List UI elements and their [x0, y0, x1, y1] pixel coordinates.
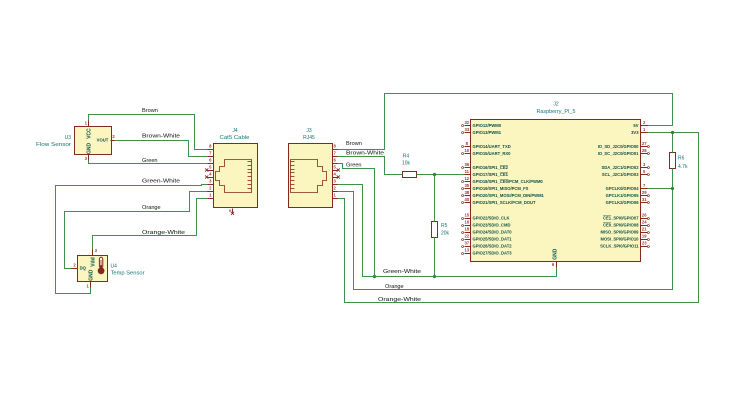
svg-text:21: 21	[642, 227, 647, 232]
svg-text:R6: R6	[678, 156, 685, 162]
svg-text:Orange: Orange	[142, 205, 161, 211]
J4 pins 8..1 stubs and numbers	[208, 144, 214, 199]
junction at R4/R5 node	[433, 173, 436, 176]
svg-text:33: 33	[464, 127, 469, 132]
svg-text:1: 1	[85, 120, 88, 125]
wire Green-White: U4 GND to J4 pin 3	[56, 185, 208, 294]
U3 pin 3 GND stub	[88, 155, 90, 161]
svg-text:Flow Sensor: Flow Sensor	[36, 142, 71, 148]
U4 pin 2 DQ stub (left)	[72, 268, 78, 270]
U3 pin 1 VCC stub	[88, 121, 90, 127]
J4 no-connect x on pin 5	[205, 168, 208, 171]
svg-text:R5: R5	[441, 223, 448, 229]
svg-text:MISO_SPI0/GPIO09: MISO_SPI0/GPIO09	[601, 230, 640, 235]
svg-text:2: 2	[334, 186, 337, 191]
J4 no-connect x on pin 4	[205, 175, 208, 178]
junction Green joins Green-White (GND net)	[373, 275, 376, 278]
wire Brown: U3 VCC to J4 pin 8	[89, 115, 208, 150]
svg-text:3: 3	[85, 156, 88, 161]
svg-text:2: 2	[112, 134, 115, 139]
svg-text:GND: GND	[87, 143, 93, 155]
svg-text:6: 6	[552, 262, 555, 267]
svg-text:31: 31	[642, 197, 647, 202]
wire R6 pull-up leads	[672, 133, 674, 153]
resistor R6 body	[670, 153, 676, 169]
svg-text:13: 13	[464, 248, 469, 253]
svg-text:Brown: Brown	[142, 108, 158, 114]
U4 thermometer icon	[98, 257, 105, 274]
U4 pin 3 Vdd stub (top)	[92, 250, 94, 256]
svg-text:GPCLK1/GPIO05: GPCLK1/GPIO05	[606, 193, 640, 198]
svg-text:10k: 10k	[402, 160, 411, 166]
svg-text:29: 29	[642, 190, 647, 195]
temp sensor U4 body	[78, 256, 108, 282]
svg-text:Brown-White: Brown-White	[142, 133, 180, 139]
svg-text:CE0_SPI0/GPIO08: CE0_SPI0/GPIO08	[603, 223, 639, 228]
junction R6 top on 3V3 wire	[671, 131, 674, 134]
svg-text:DQ: DQ	[80, 266, 87, 271]
svg-text:Vdd: Vdd	[90, 257, 96, 266]
junction R5 bottom on Green-White wire	[433, 275, 436, 278]
svg-text:GPIO15/UART_RX0: GPIO15/UART_RX0	[473, 151, 512, 156]
svg-text:GPIO13/PWM1: GPIO13/PWM1	[473, 130, 502, 135]
svg-text:5: 5	[643, 169, 646, 174]
wire Green: J3 pin 6 down to Green-White junction	[338, 164, 375, 277]
svg-text:3: 3	[209, 179, 212, 184]
svg-text:4.7k: 4.7k	[678, 164, 688, 170]
svg-text:3: 3	[334, 179, 337, 184]
Raspberry Pi header J2 body	[471, 120, 641, 262]
svg-text:3: 3	[95, 248, 98, 253]
svg-text:18: 18	[464, 227, 469, 232]
svg-text:SCLK_SPI0/GPIO11: SCLK_SPI0/GPIO11	[600, 244, 639, 249]
wire Orange: J3 pin 2 to J2 GPCLK0/GPIO04 pin 7	[338, 189, 673, 290]
svg-text:GPIO25/SDIO_DAT1: GPIO25/SDIO_DAT1	[473, 237, 513, 242]
wire Brown-White: J3 pin 7 through R4 to J2 GPIO17	[338, 157, 403, 175]
J3 no-connect x on pin 5	[337, 168, 340, 171]
resistor R5 body	[432, 222, 438, 238]
svg-text:4: 4	[209, 172, 212, 177]
svg-text:2: 2	[73, 262, 76, 267]
wire Green-White: J3 pin 3 to J2 GND pin 6	[338, 185, 557, 277]
svg-text:16: 16	[464, 220, 469, 225]
svg-text:J2: J2	[553, 102, 559, 108]
svg-text:GPIO12/PWM0: GPIO12/PWM0	[473, 123, 502, 128]
svg-text:7: 7	[209, 151, 212, 156]
svg-text:U4: U4	[111, 264, 118, 270]
svg-text:Green-White: Green-White	[383, 269, 421, 275]
svg-text:Brown-White: Brown-White	[346, 151, 384, 157]
svg-text:Brown: Brown	[346, 141, 362, 147]
wire Orange-White: U4 Vdd to J4 pin 1	[93, 199, 208, 250]
svg-text:7: 7	[643, 183, 646, 188]
svg-text:2: 2	[643, 120, 646, 125]
svg-text:GPIO18/SPI1_CE0/PCM_CLK/PWM0: GPIO18/SPI1_CE0/PCM_CLK/PWM0	[473, 179, 544, 184]
flow sensor U3 body	[75, 127, 112, 155]
svg-text:GPIO24/SDIO_DAT0: GPIO24/SDIO_DAT0	[473, 230, 513, 235]
J2 GND pin stub (bottom)	[556, 262, 558, 268]
svg-text:GPCLK2/GPIO06: GPCLK2/GPIO06	[606, 200, 640, 205]
svg-text:J4: J4	[232, 128, 238, 134]
U3 pin 2 VOUT stub	[111, 140, 115, 142]
svg-text:1: 1	[86, 283, 89, 288]
svg-text:MOSI_SPI0/GPIO10: MOSI_SPI0/GPIO10	[601, 237, 640, 242]
wire Brown-White: U3 VOUT to J4 pin 7	[115, 141, 208, 157]
svg-text:3V3: 3V3	[631, 130, 639, 135]
svg-text:40: 40	[464, 197, 469, 202]
svg-text:1: 1	[209, 193, 212, 198]
connector J4 body	[214, 144, 258, 208]
svg-text:38: 38	[464, 190, 469, 195]
svg-text:SDA_J2C1/GPIO02: SDA_J2C1/GPIO02	[601, 165, 639, 170]
svg-text:11: 11	[465, 169, 470, 174]
svg-text:8: 8	[334, 144, 337, 149]
svg-text:GND: GND	[88, 269, 94, 281]
svg-text:GPIO21/SPI1_SCLK/PCM_DOUT: GPIO21/SPI1_SCLK/PCM_DOUT	[473, 200, 537, 205]
svg-text:CE1_SPI0/GPIO07: CE1_SPI0/GPIO07	[603, 216, 639, 221]
svg-text:3: 3	[643, 162, 646, 167]
svg-text:GPIO17/SPI1_CE1: GPIO17/SPI1_CE1	[473, 172, 509, 177]
svg-text:36: 36	[464, 162, 469, 167]
svg-text:8: 8	[209, 144, 212, 149]
J4 shield no-connect x	[231, 212, 234, 215]
svg-text:GPCLK0/GPIO04: GPCLK0/GPIO04	[606, 186, 640, 191]
svg-text:28: 28	[642, 148, 647, 153]
svg-text:GPIO14/UART_TXD: GPIO14/UART_TXD	[473, 144, 511, 149]
svg-text:Green: Green	[142, 158, 158, 164]
svg-text:2: 2	[209, 186, 212, 191]
svg-text:27: 27	[642, 141, 647, 146]
U4 pin 1 GND stub (bottom)	[90, 282, 92, 288]
svg-text:IO_SD_J2C0/GPIO00: IO_SD_J2C0/GPIO00	[598, 144, 639, 149]
wire Green: U3 GND to J4 pin 6	[89, 161, 208, 164]
J3 pins 8..1 stubs and numbers	[333, 144, 338, 199]
svg-text:Orange-White: Orange-White	[378, 297, 421, 303]
svg-text:35: 35	[464, 183, 469, 188]
svg-text:SCL_J2C1/GPIO03: SCL_J2C1/GPIO03	[602, 172, 639, 177]
svg-text:GND: GND	[553, 248, 559, 260]
svg-text:9: 9	[229, 209, 231, 213]
svg-text:5: 5	[209, 165, 212, 170]
junction GPIO04 node with R6 bottom	[671, 187, 674, 190]
svg-text:4: 4	[334, 172, 337, 177]
svg-text:12: 12	[464, 176, 469, 181]
svg-text:J3: J3	[306, 128, 312, 134]
svg-text:37: 37	[464, 241, 469, 246]
svg-text:Green-White: Green-White	[142, 179, 180, 185]
svg-text:32: 32	[464, 120, 469, 125]
svg-text:U3: U3	[65, 135, 72, 141]
svg-text:GPIO27/SDIO_DAT3: GPIO27/SDIO_DAT3	[473, 251, 513, 256]
svg-text:23: 23	[642, 241, 647, 246]
svg-text:GPIO26/SDIO_DAT2: GPIO26/SDIO_DAT2	[473, 244, 513, 249]
J3 no-connect x on pin 4	[337, 175, 340, 178]
svg-text:26: 26	[642, 213, 647, 218]
svg-text:GPIO16/SPI1_CE2: GPIO16/SPI1_CE2	[473, 165, 509, 170]
wire Brown: J3 pin 8 to J2 5V pin 2	[338, 94, 673, 150]
svg-text:IO_SC_J2C0/GPIO01: IO_SC_J2C0/GPIO01	[598, 151, 639, 156]
svg-text:RJ45: RJ45	[303, 135, 315, 141]
svg-text:6: 6	[209, 158, 212, 163]
svg-text:6: 6	[334, 158, 337, 163]
svg-text:1: 1	[643, 127, 646, 132]
svg-text:GPIO20/SPI1_MOSI/PCM_DIN/PWM1: GPIO20/SPI1_MOSI/PCM_DIN/PWM1	[473, 193, 545, 198]
svg-text:24: 24	[642, 220, 647, 225]
svg-text:VCC: VCC	[87, 128, 93, 139]
svg-text:Cat5 Cable: Cat5 Cable	[220, 135, 250, 141]
svg-text:Temp Sensor: Temp Sensor	[111, 271, 145, 277]
wire Orange-White: J3 pin 1 to J2 3V3 pin 1	[338, 133, 699, 303]
svg-text:15: 15	[464, 213, 469, 218]
resistor R4 body	[403, 172, 417, 178]
J2 left pins (stubs, numbers, names)	[462, 120, 545, 255]
svg-text:20k: 20k	[441, 231, 450, 237]
svg-text:GPIO23/SDIO_CMD: GPIO23/SDIO_CMD	[473, 223, 511, 228]
wire R5 pull-down from GPIO17 node to GND net	[434, 175, 436, 222]
svg-text:VOUT: VOUT	[97, 138, 109, 143]
svg-text:5V: 5V	[633, 123, 638, 128]
svg-text:5: 5	[334, 165, 337, 170]
connector J3 body	[289, 144, 333, 208]
svg-text:GPIO19/SPI1_MISO/PCM_FS: GPIO19/SPI1_MISO/PCM_FS	[473, 186, 529, 191]
J4 RJ45 jack glyph	[216, 160, 252, 193]
svg-text:Orange: Orange	[385, 284, 404, 290]
svg-text:22: 22	[464, 234, 469, 239]
J4 shield pin stub	[232, 209, 234, 213]
svg-text:8: 8	[466, 141, 469, 146]
svg-text:Orange-White: Orange-White	[142, 230, 185, 236]
svg-text:10: 10	[464, 148, 469, 153]
svg-text:GPIO22/SDIO_CLK: GPIO22/SDIO_CLK	[473, 216, 510, 221]
wire Orange: U4 DQ to J4 pin 2	[65, 192, 208, 269]
svg-text:1: 1	[334, 193, 337, 198]
svg-text:Raspberry_PI_5: Raspberry_PI_5	[537, 109, 576, 115]
svg-text:19: 19	[642, 234, 647, 239]
J2 right pins (stubs, numbers, names)	[598, 120, 650, 248]
svg-text:R4: R4	[403, 154, 410, 160]
svg-text:7: 7	[334, 151, 337, 156]
J3 RJ45 jack glyph (mirrored)	[291, 160, 327, 193]
svg-text:Green: Green	[346, 163, 362, 169]
